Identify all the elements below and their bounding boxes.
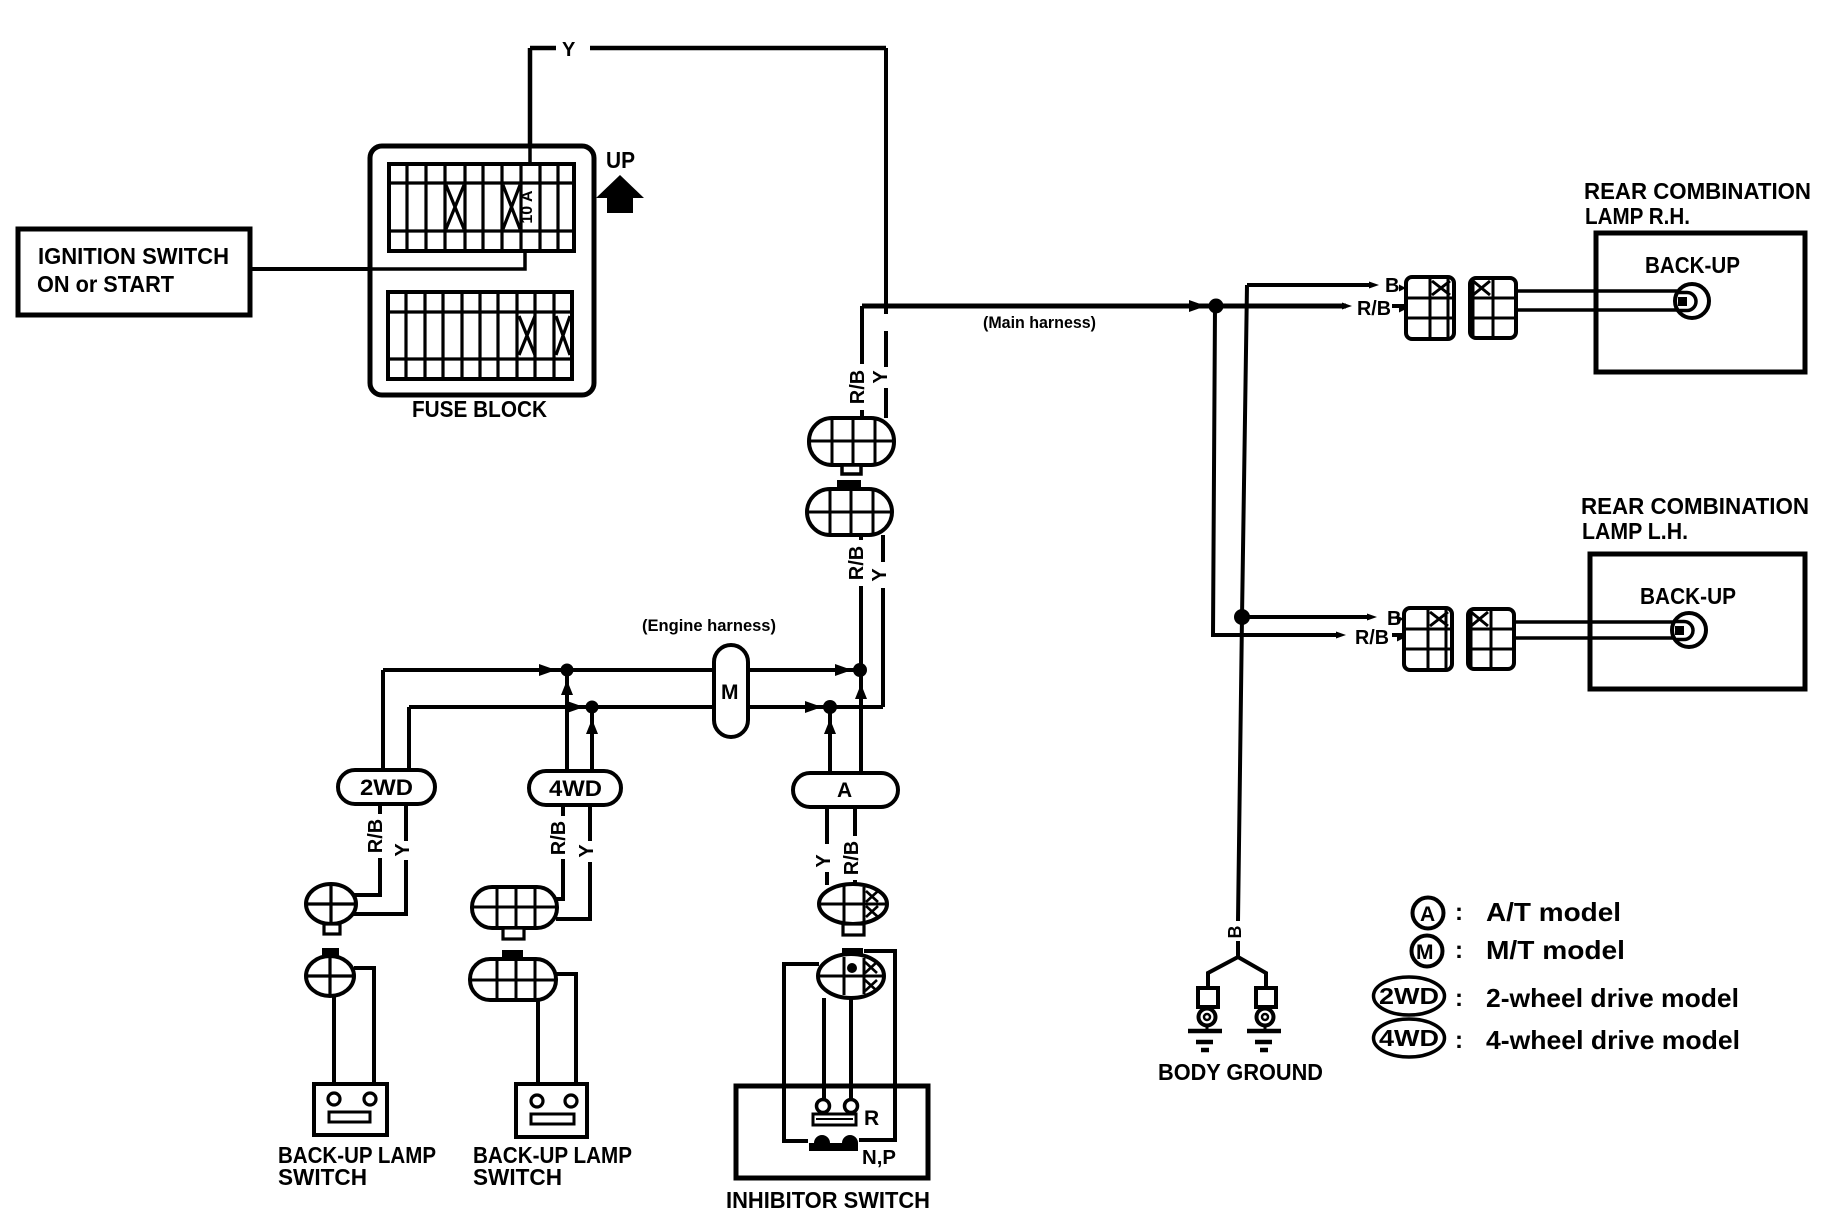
RH back-up bulb (1675, 284, 1709, 318)
svg-text:2WD: 2WD (360, 775, 413, 800)
svg-text:R/B: R/B (1355, 627, 1389, 649)
PART1 wires (250, 48, 1404, 1141)
svg-text:B: B (1385, 275, 1399, 297)
svg-text:BACK-UP: BACK-UP (1645, 252, 1740, 278)
svg-text:4-wheel drive model: 4-wheel drive model (1486, 1025, 1740, 1055)
flow arrow on M-line right (835, 664, 852, 676)
fuse block upper grid (389, 164, 574, 251)
svg-text:2-wheel drive model: 2-wheel drive model (1486, 983, 1739, 1013)
flow arrow on lower line right (805, 701, 822, 713)
legend oval 4WD (1374, 1019, 1445, 1057)
fuse X marks upper (446, 185, 520, 229)
fuse X marks lower (519, 316, 570, 355)
wire A oval R/B bottom (853, 807, 857, 885)
arrow RH R/B wire end (1342, 303, 1352, 310)
2WD round connector 2 (322, 948, 339, 956)
A oval connector (793, 773, 898, 807)
svg-text:REAR COMBINATION: REAR COMBINATION (1584, 178, 1811, 204)
pin ticks LH connector (1397, 616, 1404, 642)
inhibitor N,P contacts (809, 1143, 858, 1151)
flow arrow on lower line left (567, 701, 584, 713)
wire upper horizontal left corner down to 2WD (381, 670, 385, 772)
wire 4WD left top (from upper horizontal) (565, 670, 569, 772)
svg-text:Y: Y (813, 854, 835, 868)
wire inhibitor N,P left loop (784, 964, 819, 1141)
svg-text:10 A: 10 A (519, 190, 536, 224)
svg-text:IGNITION SWITCH: IGNITION SWITCH (38, 243, 229, 269)
inhibitor switch box (736, 1086, 928, 1178)
wire Y fuse to top run (530, 48, 886, 164)
svg-text:R: R (864, 1107, 879, 1130)
RH bulb socket lines (1516, 291, 1677, 310)
wire B LH lamp horizontal (1242, 615, 1370, 619)
svg-text:SWITCH: SWITCH (473, 1164, 562, 1190)
LH rear combination lamp box (1590, 554, 1805, 689)
flow arrow on M-line left (539, 664, 556, 676)
svg-text:R/B: R/B (846, 546, 868, 580)
wire A connector2 to inhibitor R terminals (824, 998, 851, 1100)
svg-text:FUSE BLOCK: FUSE BLOCK (412, 396, 547, 422)
wire lower engine-harness horizontal (A/T,4WD) (409, 705, 883, 709)
up arrow 4WD left wire (561, 680, 573, 695)
fuse block lower grid (388, 292, 572, 379)
svg-text:SWITCH: SWITCH (278, 1164, 367, 1190)
wire 4WD right top (from lower horizontal) (590, 707, 594, 772)
svg-text:A: A (837, 779, 852, 802)
svg-text:INHIBITOR SWITCH: INHIBITOR SWITCH (726, 1187, 930, 1213)
wire B vertical to body ground (1238, 285, 1247, 957)
legend circle A (1413, 898, 1444, 929)
LH back-up bulb (1672, 613, 1706, 647)
svg-text:Y: Y (562, 39, 576, 61)
inhibitor R slot (813, 1114, 856, 1125)
junction main harness R/B (1209, 299, 1224, 314)
wire R/B main to RH connector stub (1392, 304, 1404, 308)
wire 2WD Y bottom (352, 804, 406, 914)
svg-text:BACK-UP: BACK-UP (1640, 583, 1736, 609)
wire ignition switch to fuse block (250, 251, 525, 269)
wire R/B vertical to LH lamp (1213, 307, 1339, 635)
svg-text::: : (1455, 985, 1463, 1012)
svg-text:B: B (1225, 926, 1245, 939)
svg-text:A: A (1420, 903, 1435, 926)
backup lamp switch box (4WD) (516, 1084, 587, 1137)
junction A/M-line (853, 663, 867, 677)
RH lamp connector block 2 (1470, 278, 1516, 338)
up arrow A R/B wire (855, 684, 867, 699)
wire 2WD connector2 to backup lamp switch (334, 968, 374, 1093)
4WD oval connector (529, 771, 621, 805)
svg-text::: : (1455, 899, 1463, 926)
svg-text::: : (1455, 1027, 1463, 1054)
A chain connector 1 (oval with X cells) (819, 884, 887, 924)
svg-text:LAMP L.H.: LAMP L.H. (1582, 518, 1688, 544)
wire R/B LH connector stub (1392, 633, 1402, 637)
wire upper engine-harness horizontal (M/T) (383, 668, 856, 672)
svg-text:ON or START: ON or START (37, 271, 174, 297)
svg-text:4WD: 4WD (549, 776, 602, 801)
wire 4WD connector2 to backup lamp switch (538, 974, 576, 1095)
LH lamp connector block 1 (1404, 608, 1452, 670)
4WD stadium connector 2 (502, 950, 523, 959)
up arrow 4WD right wire (586, 719, 598, 734)
svg-text:R/B: R/B (548, 821, 570, 855)
UP arrow (596, 175, 644, 213)
wire lower horizontal left corner down to 2WD (407, 707, 411, 772)
svg-text:4WD: 4WD (1379, 1025, 1439, 1051)
svg-text:M: M (1416, 941, 1434, 964)
svg-text:N,P: N,P (862, 1147, 896, 1169)
engine harness connector lower (oval grid) (807, 489, 892, 535)
svg-text:2WD: 2WD (1379, 983, 1439, 1009)
svg-text:REAR COMBINATION: REAR COMBINATION (1581, 493, 1809, 519)
wire inhibitor N,P right loop (859, 951, 895, 1140)
wire main harness horizontal R/B (862, 304, 1346, 309)
legend circle M (1412, 936, 1443, 967)
engine harness connector upper (oval grid) (809, 418, 894, 465)
wire R/B branch down to engine connector (860, 306, 864, 418)
svg-text:Y: Y (392, 843, 414, 857)
LH lamp connector block 2 (1468, 609, 1514, 669)
svg-text::: : (1455, 937, 1463, 964)
wire ignition-to-fuse redrawn over block (250, 144, 530, 269)
svg-text:LAMP R.H.: LAMP R.H. (1585, 203, 1690, 229)
svg-text:Y: Y (869, 568, 891, 582)
arrow RH B wire end (1369, 282, 1379, 289)
wire Y vertical down to engine connector (884, 48, 888, 418)
wire A oval left top (from lower horizontal) (828, 707, 832, 773)
backup lamp switch box (2WD) (314, 1084, 387, 1135)
wire 4WD Y bottom (556, 805, 590, 919)
2WD round connector 1 (306, 884, 356, 924)
ignition switch box (18, 229, 250, 315)
RH rear combination lamp box (1596, 233, 1805, 372)
wire body ground fork (1208, 957, 1266, 988)
svg-text:UP: UP (606, 147, 635, 173)
svg-text:(Engine harness): (Engine harness) (642, 616, 776, 635)
body ground terminal right (1256, 988, 1276, 1007)
RH lamp connector block 1 (1406, 277, 1454, 339)
svg-text:R/B: R/B (1357, 298, 1391, 320)
svg-text:R/B: R/B (847, 370, 869, 404)
2WD oval connector (338, 770, 435, 804)
body ground terminal left (1198, 988, 1218, 1007)
svg-text:Y: Y (576, 844, 598, 858)
LH bulb socket lines (1514, 622, 1674, 638)
inhibitor R terminals (817, 1100, 830, 1113)
label gaps (white) (371, 364, 1247, 940)
svg-text:A/T model: A/T model (1486, 897, 1621, 927)
arrow LH R/B wire end (1336, 632, 1346, 639)
wire B RH lamp horizontal (1247, 283, 1372, 287)
wire 4WD R/B bottom (556, 805, 563, 899)
wire A oval Y bottom (825, 807, 829, 885)
legend oval 2WD (1374, 977, 1445, 1015)
engine connector upper tab (842, 465, 861, 474)
4WD stadium connector 1 (472, 887, 557, 928)
M oval connector (714, 645, 748, 737)
A chain connector 2 (842, 948, 863, 956)
junction 4WD/A-line (586, 701, 599, 714)
arrow LH B wire end (1367, 614, 1377, 621)
junction 4WD/M-line (561, 664, 574, 677)
junction B at LH lamp (1234, 609, 1250, 625)
svg-text:BODY GROUND: BODY GROUND (1158, 1059, 1323, 1085)
junction A/A-line (823, 700, 837, 714)
wire Y engine below connector to corner (881, 535, 885, 707)
svg-text:Y: Y (870, 370, 892, 384)
flow arrow on main harness (1189, 300, 1206, 312)
engine connector lower tab (filled) (837, 480, 861, 489)
wire 2WD R/B bottom (354, 804, 380, 895)
pin ticks RH connector (1399, 285, 1406, 313)
svg-text:M: M (721, 681, 739, 704)
svg-text:R/B: R/B (365, 819, 387, 853)
wire R/B engine below connector to A-junction and A oval (859, 535, 863, 773)
svg-text:B: B (1387, 608, 1401, 630)
fuse block outline (370, 146, 594, 395)
up arrow A left wire (824, 719, 836, 734)
svg-text:M/T model: M/T model (1486, 935, 1625, 965)
svg-text:(Main harness): (Main harness) (983, 313, 1096, 332)
svg-text:R/B: R/B (841, 841, 863, 875)
